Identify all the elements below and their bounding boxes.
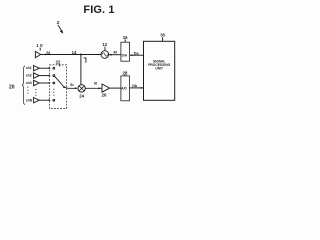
signal label L mark	[84, 58, 86, 63]
svg-text:16: 16	[123, 35, 128, 40]
wire ch3	[39, 82, 49, 84]
svg-text:20: 20	[9, 84, 15, 90]
svg-text:UNIT: UNIT	[155, 67, 163, 71]
svg-text:chN: chN	[26, 98, 33, 102]
contact ch3	[53, 82, 55, 84]
svg-text:B: B	[94, 81, 97, 85]
ellipsis contacts column	[53, 89, 54, 96]
leader tick for 30	[162, 37, 164, 41]
ellipsis antennas column	[35, 89, 36, 96]
leader tick for 10	[39, 48, 41, 51]
svg-text:D/A: D/A	[122, 54, 128, 58]
switch pole dot	[63, 86, 65, 88]
arrowhead into signal processing unit	[141, 87, 144, 89]
svg-text:ch3: ch3	[26, 81, 32, 85]
leader tick for 16	[124, 39, 126, 42]
svg-text:Db: Db	[132, 84, 138, 88]
svg-text:10: 10	[36, 43, 44, 48]
svg-text:30: 30	[160, 33, 165, 38]
arrowhead into amplifier	[99, 87, 102, 89]
leader tick for 22	[59, 64, 60, 66]
svg-text:ch1: ch1	[26, 66, 32, 70]
wire: M from D/A to oscillator	[108, 54, 121, 56]
contact ch2	[53, 75, 55, 77]
brace	[22, 66, 25, 105]
svg-text:28: 28	[123, 70, 128, 75]
svg-text:A/D: A/D	[121, 86, 127, 90]
D/A converter 16	[121, 42, 130, 61]
leader arrow for 2	[58, 25, 62, 31]
arrowhead into mixer	[75, 87, 77, 89]
wire: Sr to mixer	[64, 87, 77, 88]
svg-text:ch2: ch2	[26, 74, 32, 78]
svg-text:Sr: Sr	[70, 83, 75, 87]
wire: amplifier to A/D	[110, 87, 121, 89]
amplifier 26	[102, 84, 110, 92]
arrowhead into oscillator	[109, 54, 112, 56]
wire: LO branch down	[80, 55, 82, 85]
transmit antenna 10	[35, 51, 40, 57]
svg-text:12: 12	[102, 42, 107, 47]
wire: Da from signal processing unit to D/A	[130, 54, 144, 56]
oscillator 12	[101, 51, 109, 59]
svg-text:26: 26	[102, 93, 107, 98]
ellipsis labels column	[27, 87, 28, 94]
mixer 24	[78, 85, 85, 92]
text SIGNAL PROCESSING UNIT	[148, 59, 170, 70]
svg-text:22: 22	[56, 60, 61, 65]
wire: beat signal B	[85, 87, 102, 89]
wire ch1	[39, 67, 49, 69]
signal processing unit 30	[144, 41, 175, 100]
node 14 junction dot	[80, 54, 82, 56]
svg-text:14: 14	[72, 50, 77, 55]
wire: main transmit rail	[41, 54, 102, 56]
switch arm	[55, 76, 64, 87]
wire chN	[39, 99, 49, 101]
contact chN	[53, 99, 55, 101]
arrowhead into D/A	[130, 54, 133, 56]
svg-text:FIG. 1: FIG. 1	[83, 4, 114, 16]
arrowhead into antenna	[43, 54, 45, 56]
svg-text:24: 24	[79, 93, 84, 98]
leader tick for 12	[104, 47, 106, 51]
wire: Db from A/D to signal processing unit	[130, 87, 143, 89]
switch 22 dashed box	[50, 65, 67, 109]
A/D converter 28	[121, 76, 130, 101]
leader tick for 28	[124, 75, 126, 76]
wire ch2	[39, 75, 49, 77]
contact ch1	[53, 67, 55, 69]
